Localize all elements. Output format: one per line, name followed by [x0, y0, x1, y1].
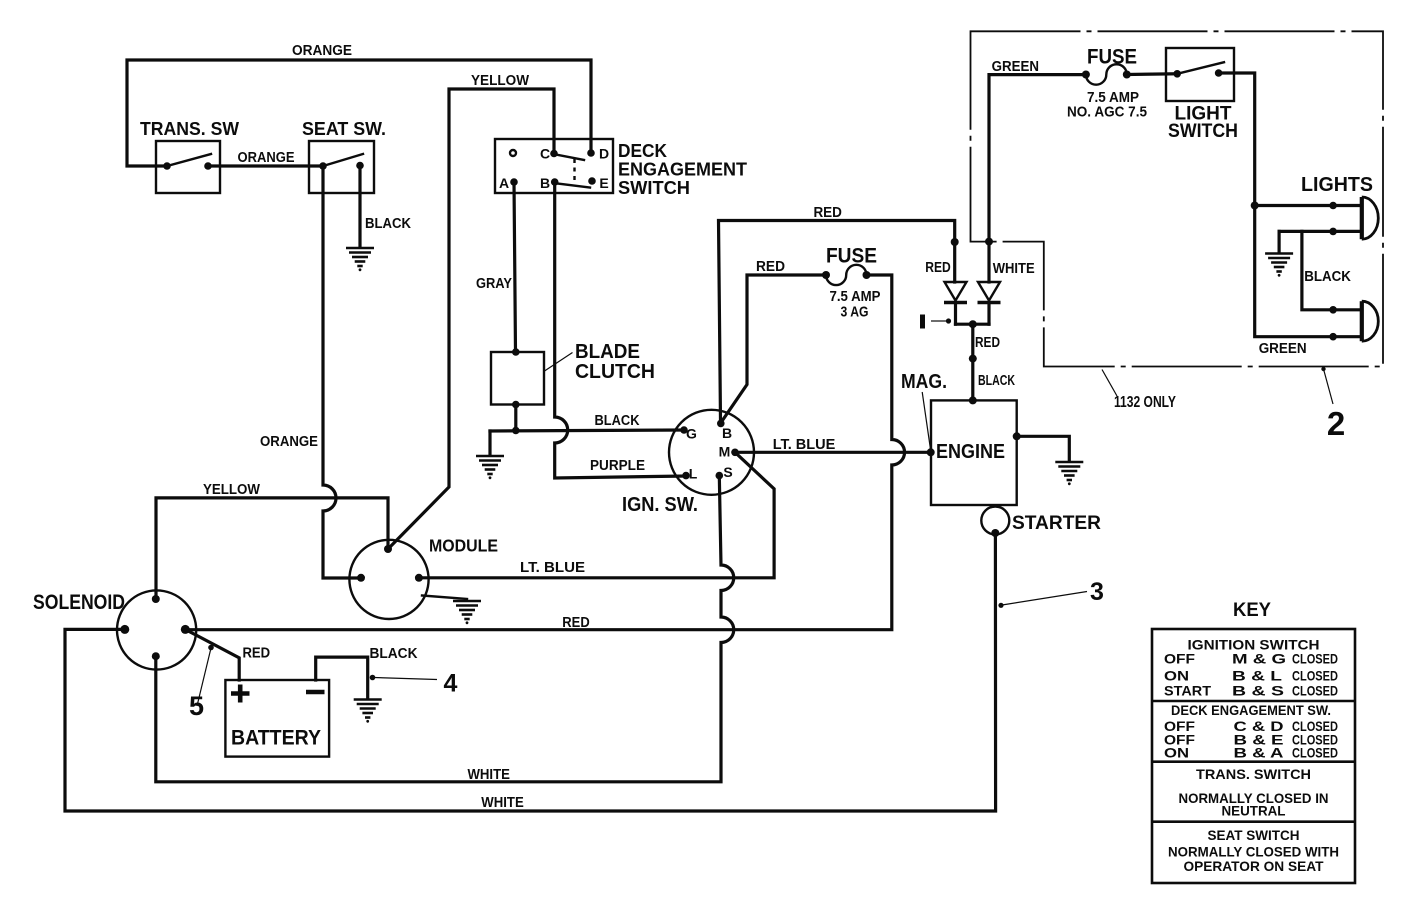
svg-text:M & G: M & G: [1232, 651, 1286, 667]
svg-text:TRANS. SWITCH: TRANS. SWITCH: [1196, 766, 1311, 782]
battery positive symbol: [231, 685, 250, 703]
label RED long bottom wire: [562, 615, 589, 631]
svg-text:BLACK: BLACK: [365, 216, 411, 232]
wire red solenoid to battery positive: [185, 629, 239, 680]
wire lt blue from ignition M diagonal down and left to module right terminal with hop for S wire: [419, 452, 774, 578]
node lower lamp terminal 2: [1329, 333, 1337, 341]
svg-text:ON: ON: [1164, 745, 1189, 761]
wire orange between TRANS. SW and SEAT SW.: [208, 164, 323, 167]
svg-text:FUSE: FUSE: [826, 245, 877, 268]
key table KEY: [1152, 600, 1355, 883]
svg-text:BLACK: BLACK: [595, 413, 640, 429]
key section seat switch: [1168, 827, 1339, 874]
deck switch open terminal: [510, 150, 516, 156]
svg-text:CLOSED: CLOSED: [1292, 651, 1338, 667]
module circle MODULE: [349, 536, 498, 620]
svg-text:B: B: [722, 425, 732, 441]
fuse F2 7.5 AMP NO. AGC 7.5: [1067, 46, 1147, 121]
ground module: [453, 601, 481, 624]
wire green fuse to light switch: [1127, 72, 1177, 76]
svg-text:BLACK: BLACK: [370, 646, 418, 662]
label 5 with leader: [189, 645, 214, 721]
label RED battery wire: [242, 646, 270, 662]
svg-text:PURPLE: PURPLE: [590, 458, 645, 474]
node junction dot on red wire above diode: [951, 238, 959, 246]
label 1132 ONLY with leader: [1102, 370, 1177, 412]
ignition terminal M: [719, 444, 739, 460]
svg-text:WHITE: WHITE: [481, 795, 524, 811]
solenoid terminal top: [152, 595, 160, 603]
node lights junction: [1251, 202, 1259, 210]
wire red-black from diode junction to engine magneto: [971, 324, 974, 400]
wire gray from deck terminal A to blade clutch: [514, 182, 516, 352]
svg-text:CLOSED: CLOSED: [1292, 683, 1338, 699]
deck terminal A: [499, 175, 518, 191]
dash-dot border 1132 ONLY region: [971, 31, 1384, 366]
wire upper lamp feed: [1255, 204, 1362, 207]
svg-text:LIGHTS: LIGHTS: [1301, 174, 1373, 196]
svg-text:BLADE: BLADE: [575, 341, 640, 363]
svg-text:BLACK: BLACK: [1304, 269, 1351, 285]
ignition terminal B: [717, 420, 732, 441]
wire ground stub lights: [1277, 231, 1280, 252]
label MAG. with leader to engine: [901, 371, 947, 450]
label 2 with leader: [1321, 367, 1345, 442]
svg-text:TRANS. SW: TRANS. SW: [140, 119, 239, 139]
wire red from fuse down with hop over lt blue and left to solenoid right terminal: [185, 275, 904, 630]
svg-text:RED: RED: [975, 335, 1000, 351]
solenoid circle SOLENOID: [33, 590, 196, 669]
solenoid terminal right: [181, 625, 190, 634]
lamp lower: [1362, 301, 1379, 341]
svg-text:G: G: [686, 426, 697, 442]
svg-text:ENGINE: ENGINE: [936, 441, 1005, 463]
key section ignition switch: [1164, 637, 1338, 699]
svg-text:B: B: [540, 175, 550, 191]
label ORANGE vertical wire: [260, 434, 318, 450]
svg-text:C: C: [540, 146, 550, 162]
wire engine right to ground: [1017, 436, 1070, 461]
label BLADE CLUTCH with leader: [545, 341, 656, 383]
svg-text:CLOSED: CLOSED: [1292, 745, 1338, 761]
node upper lamp terminal 2: [1329, 228, 1337, 236]
label RED fuse wire: [756, 259, 785, 275]
label BLACK lamps: [1304, 269, 1351, 285]
transmission switch TRANS. SW: [140, 119, 239, 193]
fuse F1 7.5 AMP 3 AG: [822, 245, 881, 321]
wire green from diode junction up to lights fuse: [989, 75, 1086, 242]
svg-text:B & L: B & L: [1232, 668, 1283, 684]
label RED top wire: [813, 205, 842, 221]
ground engine: [1055, 462, 1083, 485]
battery box BATTERY: [225, 680, 329, 757]
label LT. BLUE engine wire: [773, 437, 836, 453]
svg-text:3: 3: [1090, 578, 1104, 606]
wire red fuse branch from ignition B to fuse: [722, 275, 826, 421]
svg-text:5: 5: [189, 691, 204, 721]
svg-text:FUSE: FUSE: [1087, 46, 1137, 69]
svg-text:A: A: [499, 175, 509, 191]
deck switch lever C to D: [556, 155, 584, 161]
svg-text:RED: RED: [813, 205, 842, 221]
svg-text:OFF: OFF: [1164, 651, 1195, 667]
svg-text:MAG.: MAG.: [901, 371, 947, 393]
svg-text:RED: RED: [242, 646, 270, 662]
ground battery: [354, 700, 382, 723]
svg-text:7.5 AMP: 7.5 AMP: [830, 288, 881, 305]
node dot on magneto wire: [969, 355, 977, 363]
svg-text:WHITE: WHITE: [993, 261, 1035, 277]
blade clutch box: [491, 348, 544, 408]
svg-text:ORANGE: ORANGE: [238, 150, 295, 166]
svg-text:BLACK: BLACK: [978, 373, 1015, 389]
wire white from starter down and left to solenoid left terminal: [65, 533, 996, 811]
svg-text:START: START: [1164, 683, 1211, 699]
label WHITE diode: [993, 261, 1035, 277]
wire yellow from deck terminal C run left and down to module top: [388, 89, 554, 549]
svg-text:RED: RED: [562, 615, 589, 631]
light switch box LIGHT SWITCH: [1166, 48, 1238, 142]
svg-text:S: S: [723, 464, 732, 480]
label PURPLE: [590, 458, 645, 474]
svg-text:M: M: [719, 444, 731, 460]
svg-text:ON: ON: [1164, 668, 1189, 684]
svg-text:OPERATOR ON SEAT: OPERATOR ON SEAT: [1184, 858, 1324, 874]
wire orange top run from TRANS. SW to deck switch terminal D: [127, 60, 591, 166]
svg-text:YELLOW: YELLOW: [203, 482, 260, 498]
svg-text:STARTER: STARTER: [1012, 513, 1101, 534]
node diode junction: [969, 320, 977, 328]
svg-text:NEUTRAL: NEUTRAL: [1222, 803, 1286, 819]
svg-text:2: 2: [1327, 405, 1345, 442]
diode D1 red: [944, 282, 967, 324]
svg-text:CLOSED: CLOSED: [1292, 668, 1338, 684]
key section trans switch: [1179, 766, 1329, 819]
deck terminal B: [540, 175, 559, 191]
wire ground stub blade clutch: [488, 431, 491, 455]
svg-text:LT. BLUE: LT. BLUE: [773, 437, 836, 453]
wire lt blue from ignition M to engine: [735, 451, 931, 454]
svg-text:RED: RED: [756, 259, 785, 275]
wire orange from SEAT SW. down to module left terminal with hop over yellow wire: [323, 166, 361, 578]
label BLACK magneto wire: [978, 373, 1015, 389]
svg-text:ORANGE: ORANGE: [260, 434, 318, 450]
lamp upper: [1362, 197, 1379, 239]
deck terminal C: [540, 146, 558, 162]
deck switch lever B to E: [557, 184, 590, 188]
label YELLOW top: [471, 73, 529, 89]
module terminal top: [384, 545, 392, 553]
svg-text:IGN. SW.: IGN. SW.: [622, 494, 698, 516]
svg-text:ORANGE: ORANGE: [292, 43, 352, 59]
wire yellow from module top to solenoid top with hop at orange wire: [156, 498, 388, 599]
label RED magneto wire: [975, 335, 1000, 351]
deck terminal D: [587, 146, 609, 162]
diode D2 white: [978, 242, 1001, 325]
module terminal left: [357, 574, 365, 582]
node lower lamp terminal 1: [1329, 306, 1337, 314]
solenoid terminal bottom: [152, 652, 160, 660]
deck switch dashed link: [573, 159, 575, 181]
svg-text:KEY: KEY: [1233, 600, 1271, 621]
wire black from ground corner to ignition terminal G: [490, 430, 684, 431]
label BLACK blade clutch wire: [595, 413, 640, 429]
svg-text:3 AG: 3 AG: [841, 304, 869, 321]
node junction green white diode: [985, 238, 993, 246]
wire upper lamp return: [1279, 230, 1362, 233]
wire module ground lead: [422, 596, 467, 600]
battery negative symbol: [306, 690, 325, 695]
ground seat switch: [346, 248, 374, 271]
svg-text:E: E: [599, 175, 608, 191]
svg-text:SEAT SWITCH: SEAT SWITCH: [1208, 827, 1300, 843]
wire black seat switch to ground: [358, 166, 361, 248]
svg-text:SWITCH: SWITCH: [618, 177, 690, 198]
svg-text:1132 ONLY: 1132 ONLY: [1114, 394, 1177, 411]
label ORANGE top wire: [292, 43, 352, 59]
svg-text:L: L: [689, 466, 698, 482]
label BLACK seat switch ground wire: [365, 216, 411, 232]
wire black between lamps: [1302, 231, 1362, 309]
seat switch SEAT SW.: [302, 119, 386, 193]
ignition terminal L: [682, 466, 698, 482]
wire purple from deck terminal B down with hop over black wire to ignition terminal L: [555, 182, 686, 478]
label BLACK battery wire: [370, 646, 418, 662]
label GRAY: [476, 276, 512, 292]
key section deck engagement switch: [1164, 702, 1338, 761]
svg-text:YELLOW: YELLOW: [471, 73, 529, 89]
svg-text:SEAT SW.: SEAT SW.: [302, 119, 386, 139]
ground lights: [1265, 254, 1293, 277]
wire white from ignition S down with hops to solenoid bottom terminal: [156, 476, 734, 782]
label RED diode: [925, 260, 951, 276]
svg-text:SWITCH: SWITCH: [1168, 121, 1238, 142]
ignition terminal G: [680, 426, 697, 442]
starter circle STARTER: [981, 507, 1101, 538]
ignition terminal S: [716, 464, 733, 480]
svg-text:D: D: [599, 146, 609, 162]
svg-text:B & A: B & A: [1234, 745, 1284, 761]
label LT. BLUE module wire: [520, 560, 585, 576]
ignition switch IGN. SW. circle: [622, 410, 754, 516]
svg-text:LT. BLUE: LT. BLUE: [520, 560, 585, 576]
svg-text:DECK ENGAGEMENT SW.: DECK ENGAGEMENT SW.: [1171, 702, 1331, 718]
svg-text:B & S: B & S: [1232, 683, 1284, 699]
svg-text:GRAY: GRAY: [476, 276, 512, 292]
svg-text:WHITE: WHITE: [467, 767, 510, 783]
svg-text:CLUTCH: CLUTCH: [575, 361, 655, 383]
wire red top from ignition B to diode junction: [719, 221, 955, 422]
node upper lamp terminal 1: [1329, 202, 1337, 210]
wire diode junction bar: [956, 323, 990, 326]
svg-text:MODULE: MODULE: [429, 536, 498, 556]
deck terminal E: [588, 175, 608, 191]
label ORANGE between switches: [238, 150, 295, 166]
svg-text:BATTERY: BATTERY: [231, 726, 321, 749]
svg-text:GREEN: GREEN: [1259, 341, 1307, 357]
svg-text:4: 4: [444, 670, 458, 698]
wire blade clutch bottom to black run: [512, 405, 520, 435]
wire from light switch down to lamps: [1219, 73, 1362, 337]
ground blade clutch: [476, 456, 504, 479]
module terminal right: [415, 574, 423, 582]
label WHITE bottom wire: [481, 795, 524, 811]
solenoid terminal left: [120, 625, 129, 634]
label 3 with leader to starter wire: [998, 578, 1104, 608]
label 4 with leader: [370, 670, 458, 698]
label WHITE wire solenoid bottom: [467, 767, 510, 783]
svg-text:RED: RED: [925, 260, 951, 276]
wire black battery negative to ground: [316, 657, 368, 698]
label 1 with leader: [923, 315, 952, 329]
engine box ENGINE: [927, 396, 1021, 505]
svg-text:SOLENOID: SOLENOID: [33, 591, 125, 614]
label LIGHTS: [1301, 174, 1373, 196]
svg-text:GREEN: GREEN: [992, 59, 1039, 75]
label GREEN top: [992, 59, 1039, 75]
label YELLOW solenoid wire: [203, 482, 260, 498]
deck engagement switch box: [495, 139, 748, 198]
svg-text:NO. AGC 7.5: NO. AGC 7.5: [1067, 104, 1147, 121]
label GREEN lamps: [1259, 341, 1307, 357]
